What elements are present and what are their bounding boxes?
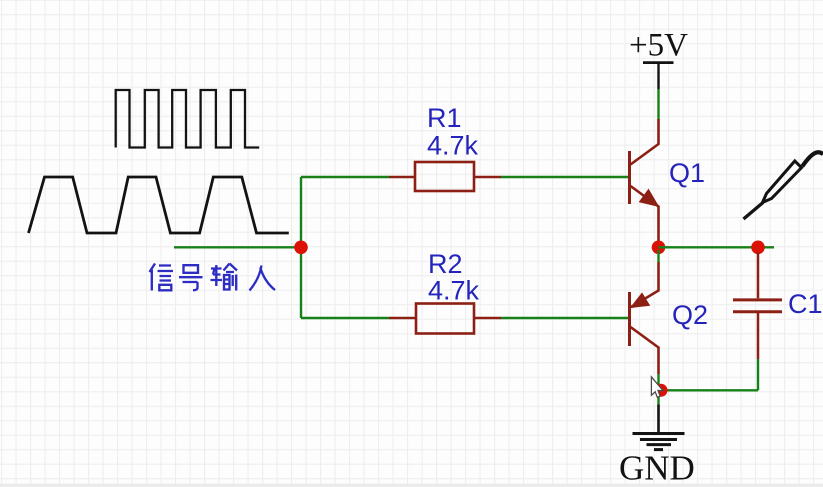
node: bottom junction xyxy=(655,384,668,397)
wire: input horizontal xyxy=(174,246,301,248)
resistor R2 xyxy=(389,304,501,334)
label GND xyxy=(619,449,695,487)
mouse cursor xyxy=(651,377,663,398)
label R1 value 4.7k xyxy=(427,131,479,161)
ground GND symbol xyxy=(633,405,685,450)
waveform: square wave xyxy=(116,90,260,148)
node: emitter junction (Q1/Q2/C1 row) xyxy=(652,241,666,255)
svg-text:R2: R2 xyxy=(428,249,463,279)
wire: +5V stem green segment xyxy=(657,89,659,120)
probe cursor icon xyxy=(744,152,823,219)
bottom edge band xyxy=(0,484,823,487)
transistor Q1 xyxy=(630,119,659,242)
wire: emitters row horizontal xyxy=(659,246,775,248)
wire: input vertical bus xyxy=(300,177,302,318)
glyph 信 xyxy=(150,264,174,291)
label R1 xyxy=(427,103,462,133)
svg-text:Q2: Q2 xyxy=(672,300,708,330)
glyph 入 xyxy=(250,266,276,291)
glyph 号 xyxy=(179,265,203,290)
label C1 xyxy=(788,289,823,319)
resistor R1 xyxy=(389,162,501,191)
label 信号输入 (drawn glyph strokes) xyxy=(150,264,276,291)
label +5V xyxy=(629,28,688,64)
wire: R2 right to Q2 base xyxy=(501,317,628,319)
wire: R1 right to Q1 base xyxy=(501,176,628,178)
wire: R1 left xyxy=(301,176,389,178)
wire: C1 bottom green vertical xyxy=(757,359,759,390)
svg-text:+5V: +5V xyxy=(629,28,688,64)
svg-text:4.7k: 4.7k xyxy=(428,276,480,306)
label R2 xyxy=(428,249,463,279)
wire: Q2 emitter down green xyxy=(657,374,659,405)
transistor Q2 xyxy=(630,262,659,374)
node: input junction xyxy=(294,241,308,255)
svg-text:R1: R1 xyxy=(427,103,462,133)
svg-text:Q1: Q1 xyxy=(669,158,705,188)
glyph 输 xyxy=(211,264,238,291)
label Q2 xyxy=(672,300,708,330)
wire: Q2 top green stub xyxy=(657,250,659,262)
capacitor C1 xyxy=(733,253,782,360)
label Q1 xyxy=(669,158,705,188)
node: C1 top junction xyxy=(751,241,765,255)
power +5V symbol xyxy=(643,63,674,90)
wire: bottom horizontal xyxy=(660,389,759,391)
wire: R2 left xyxy=(301,317,389,319)
svg-text:GND: GND xyxy=(619,449,695,487)
waveform: trapezoid wave xyxy=(29,177,289,233)
label R2 value 4.7k xyxy=(428,276,480,306)
svg-text:4.7k: 4.7k xyxy=(427,131,479,161)
svg-text:C1: C1 xyxy=(788,289,823,319)
